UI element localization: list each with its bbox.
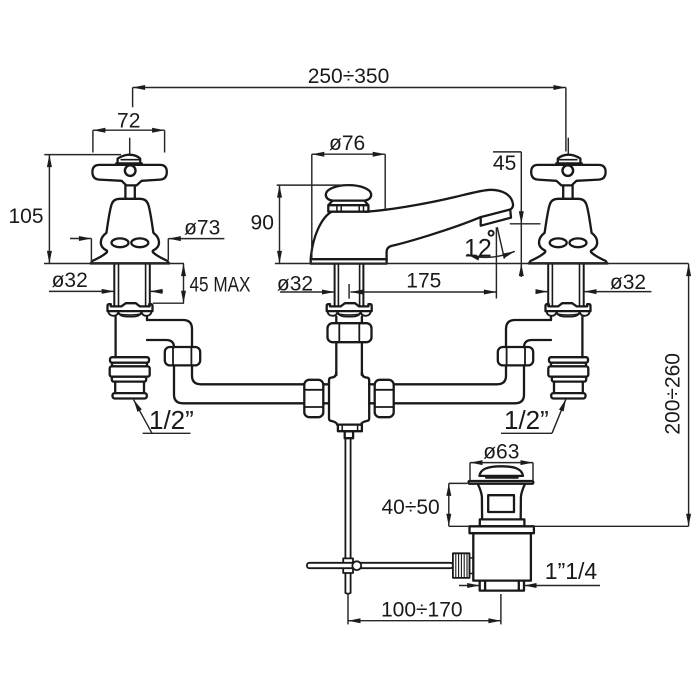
bell base line	[91, 262, 170, 265]
tube to tee	[336, 342, 362, 375]
svg-text:90: 90	[251, 212, 274, 235]
waste window	[488, 495, 514, 512]
dim 90	[277, 185, 349, 263]
label 1/2 inch right	[501, 399, 566, 433]
svg-text:ø76: ø76	[329, 132, 365, 155]
handle top cap	[116, 155, 142, 164]
supply tube	[116, 317, 147, 358]
waste barrel	[473, 533, 531, 580]
pop-up rod vertical	[345, 438, 350, 594]
deck datum line right	[275, 263, 689, 265]
union hex nut on down tube	[328, 323, 372, 342]
waste step	[480, 519, 525, 526]
dim 100÷170	[348, 593, 501, 624]
deck datum line left	[44, 263, 184, 265]
svg-text:12: 12	[464, 235, 492, 263]
tee bottom flange	[338, 425, 362, 432]
elbow to union nut	[147, 320, 192, 347]
waste tailpiece	[480, 581, 524, 591]
knurled adjuster	[453, 553, 470, 578]
svg-text:ø32: ø32	[52, 269, 88, 292]
tee body	[329, 372, 369, 424]
threaded shank	[114, 264, 150, 307]
dim ø32 center	[280, 291, 335, 293]
spout body left flare	[311, 212, 332, 260]
tee bottom stub	[345, 431, 353, 438]
dim ø32 left	[49, 290, 163, 292]
svg-text:105: 105	[8, 205, 43, 228]
waste tulip body	[478, 484, 525, 520]
waste flange	[470, 526, 534, 533]
spout arm top and tip	[366, 190, 514, 212]
union nut (elbow)	[165, 347, 200, 365]
spout wavy nut	[327, 303, 372, 316]
svg-text:ø32: ø32	[610, 271, 646, 294]
dim 12 degrees	[467, 227, 515, 298]
wavy nut	[108, 303, 153, 316]
svg-text:1”1/4: 1”1/4	[545, 558, 598, 584]
svg-text:45: 45	[493, 152, 516, 175]
dim 250÷350	[133, 88, 566, 152]
svg-text:200÷260: 200÷260	[662, 353, 685, 435]
svg-text:1/2”: 1/2”	[149, 405, 194, 435]
label 1/2 inch left	[134, 400, 191, 434]
cross handle bar	[92, 165, 166, 186]
dim ø32 right	[536, 291, 651, 293]
svg-text:45 MAX: 45 MAX	[190, 274, 251, 297]
svg-text:72: 72	[117, 110, 140, 133]
supply connector stack	[110, 357, 149, 362]
svg-text:175: 175	[406, 269, 441, 292]
tube below spout nut	[336, 317, 362, 324]
spout underside	[387, 217, 481, 259]
aerator outlet	[481, 210, 511, 226]
bell body outline	[92, 199, 169, 264]
spout dome cap	[326, 185, 371, 201]
tee side compression nut	[304, 380, 323, 417]
handle hub circle	[125, 165, 136, 176]
elbow down to horizontal run	[174, 365, 304, 403]
horizontal pop-up lever rod	[307, 563, 453, 568]
svg-text:100÷170: 100÷170	[381, 598, 463, 621]
dim ø76	[312, 154, 385, 259]
band ellipses	[112, 238, 129, 247]
waste top plate	[469, 481, 534, 484]
dim 1"1/4	[459, 585, 600, 587]
handle stem	[125, 185, 134, 198]
dim 175	[349, 284, 496, 299]
svg-text:ø73: ø73	[184, 217, 220, 240]
rod clamp	[343, 558, 353, 573]
dim 105	[44, 155, 121, 264]
dim 45 (spout height)	[493, 152, 541, 277]
dim 45 MAX	[153, 264, 184, 304]
dim 200÷260	[688, 264, 690, 527]
spout collar	[328, 201, 368, 212]
dim 72	[93, 130, 165, 152]
spout base plate	[311, 259, 387, 263]
rod ball	[352, 561, 361, 570]
svg-text:250÷350: 250÷350	[308, 65, 390, 88]
svg-text:ø63: ø63	[483, 441, 519, 464]
svg-text:ø32: ø32	[277, 273, 313, 296]
dim ø63	[470, 463, 533, 481]
dim 40÷50	[449, 483, 689, 526]
dim ø73	[70, 239, 224, 264]
svg-text:40÷50: 40÷50	[381, 496, 439, 519]
svg-text:1/2”: 1/2”	[504, 405, 549, 435]
pipe stub to tee	[323, 384, 329, 403]
spout shank	[335, 264, 364, 307]
waste knob dome	[479, 466, 523, 476]
